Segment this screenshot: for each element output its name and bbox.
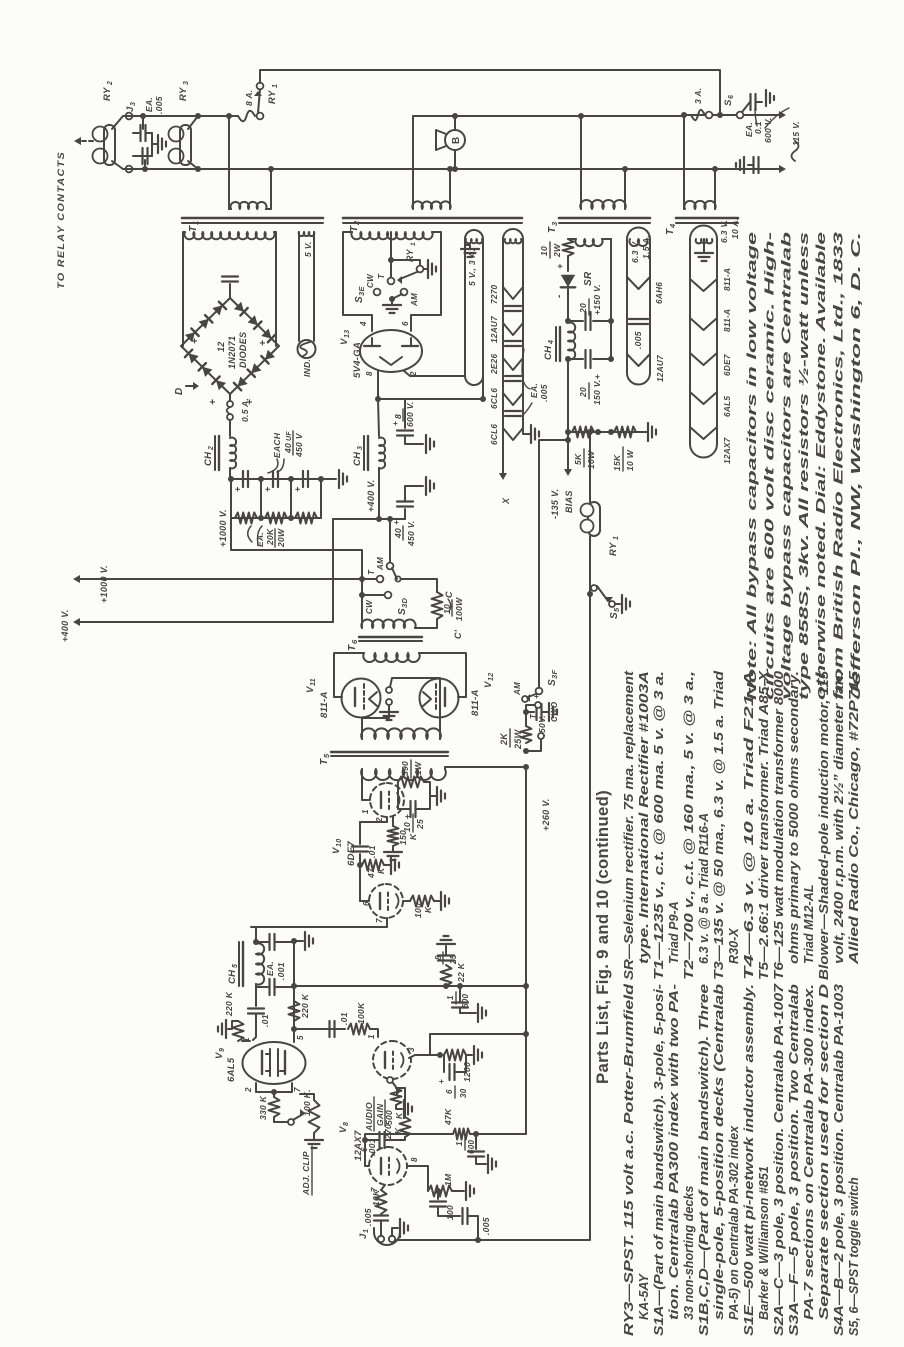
selenium rectifier SR xyxy=(567,256,569,271)
svg-text:811-A: 811-A xyxy=(319,691,330,718)
heaters 6.3V5A xyxy=(503,287,523,299)
svg-text:3: 3 xyxy=(130,102,137,106)
svg-text:3F: 3F xyxy=(550,670,559,679)
ground RY1 contact xyxy=(424,268,427,270)
fuse 3A xyxy=(691,110,705,121)
heater 12AU7 xyxy=(627,354,650,366)
svg-text:20K: 20K xyxy=(265,528,275,546)
svg-text:CH: CH xyxy=(543,345,554,360)
svg-text:+: + xyxy=(555,263,565,269)
svg-text:12AU7: 12AU7 xyxy=(656,355,665,382)
T6 primary winding xyxy=(361,620,415,628)
+1000V wire run xyxy=(231,518,362,579)
svg-text:8: 8 xyxy=(434,955,443,960)
T1 5V winding xyxy=(299,232,315,236)
svg-text:0.1: 0.1 xyxy=(753,121,763,134)
V10 triode A dashed xyxy=(370,783,404,817)
T4 primary xyxy=(684,201,715,209)
wire T6 sec to V11 plate xyxy=(334,653,364,697)
grid stopper 10K xyxy=(376,1190,387,1214)
svg-text:T5—2.66:1 driver transformer: T5—2.66:1 driver transformer. Triad A85-… xyxy=(757,669,771,980)
svg-text:SR—Selenium rectifier. 75: SR—Selenium rectifier. 75 ma. replacemen… xyxy=(622,670,636,980)
wire to S3F contact T xyxy=(526,705,534,726)
svg-text:811-A: 811-A xyxy=(470,689,481,716)
relay contacts RY2 xyxy=(93,149,108,164)
svg-text:2: 2 xyxy=(208,446,215,451)
svg-text:1: 1 xyxy=(363,1229,370,1233)
tube V13 5V4-GA xyxy=(360,330,422,372)
svg-text:40: 40 xyxy=(393,528,403,539)
svg-text:+1000 V.: +1000 V. xyxy=(99,565,109,603)
svg-text:ADJ. CLIP: ADJ. CLIP xyxy=(301,1151,311,1196)
wire +1000 to T6 primary xyxy=(361,579,363,628)
svg-text:.001: .001 xyxy=(367,1138,377,1156)
resistor 270K xyxy=(400,1117,411,1137)
svg-text:S5, 6—SPST toggle switch: S5, 6—SPST toggle switch xyxy=(847,1177,861,1336)
svg-text:1: 1 xyxy=(272,84,279,88)
svg-text:EA.: EA. xyxy=(265,961,275,976)
T5 primary winding xyxy=(361,769,446,780)
svg-text:T: T xyxy=(319,758,330,765)
svg-text:5: 5 xyxy=(322,753,331,758)
svg-text:RY: RY xyxy=(267,89,278,104)
svg-text:S1A—(Part of main bandswitch).: S1A—(Part of main bandswitch). 3-pole, 5… xyxy=(652,984,666,1336)
svg-text:5: 5 xyxy=(232,964,239,968)
svg-text:8: 8 xyxy=(365,371,374,376)
svg-text:Parts List, Fig. 9 and 10 (con: Parts List, Fig. 9 and 10 (continued) xyxy=(594,790,612,1084)
resistor 10ohm 2W xyxy=(563,239,574,256)
T6 secondary winding xyxy=(363,653,419,662)
svg-text:10: 10 xyxy=(539,246,549,256)
wire coil to S5 xyxy=(589,536,591,594)
svg-text:S: S xyxy=(354,296,365,303)
T2 HV secondary xyxy=(351,232,432,239)
svg-text:5 V.: 5 V. xyxy=(303,241,313,257)
svg-text:6DE7: 6DE7 xyxy=(723,354,732,376)
svg-text:5: 5 xyxy=(296,1035,305,1040)
line bypass cap neutral side xyxy=(752,157,754,173)
svg-text:+400 V.: +400 V. xyxy=(366,479,376,512)
clipper output wire to V9 pin 5 xyxy=(293,941,295,1042)
svg-text:2E26: 2E26 xyxy=(490,354,499,375)
svg-text:.005: .005 xyxy=(633,331,643,349)
svg-text:6: 6 xyxy=(445,1089,454,1094)
svg-text:3: 3 xyxy=(183,81,190,85)
svg-text:Separate section used for sect: Separate section used for section D xyxy=(817,984,831,1320)
svg-text:7: 7 xyxy=(375,918,384,923)
S3F switch xyxy=(535,702,541,708)
jack J3 xyxy=(126,113,133,120)
svg-text:AM: AM xyxy=(513,682,522,696)
relay contact RY1 on CT xyxy=(391,260,420,265)
tube V9 6AL5 xyxy=(243,1042,306,1084)
svg-text:CW: CW xyxy=(365,599,374,614)
svg-text:AUDIO: AUDIO xyxy=(364,1102,374,1132)
svg-text:1: 1 xyxy=(367,1034,376,1039)
pilot lamp IND xyxy=(298,340,316,358)
svg-text:T4—6.3 v. @ 10 a. Triad: T4—6.3 v. @ 10 a. Triad F21-A xyxy=(742,671,756,980)
svg-text:+1000 V.: +1000 V. xyxy=(218,509,228,547)
svg-text:V: V xyxy=(339,338,350,345)
svg-text:1: 1 xyxy=(361,809,370,814)
6.3V10A chain rails xyxy=(689,239,691,444)
svg-text:S: S xyxy=(723,99,734,106)
svg-text:RY: RY xyxy=(102,86,113,101)
svg-text:SR: SR xyxy=(583,271,594,286)
svg-text:12AU7: 12AU7 xyxy=(490,316,499,343)
S3F pole wire to bias line xyxy=(539,440,568,688)
svg-text:T: T xyxy=(377,273,386,279)
blower motor B xyxy=(445,130,465,150)
loop to pilot lamp xyxy=(298,232,300,341)
T3 6.3V1.5A winding xyxy=(629,239,647,246)
svg-text:10: 10 xyxy=(442,604,452,614)
capacitor 450V from +260 xyxy=(523,709,529,715)
+400 vertical run xyxy=(333,518,405,520)
resistor 1M with ground xyxy=(428,1186,452,1197)
svg-text:R30-X: R30-X xyxy=(727,927,741,964)
svg-text:3 A.: 3 A. xyxy=(693,88,703,104)
T2 primary winding xyxy=(412,201,450,209)
svg-text:DIODES: DIODES xyxy=(238,332,248,368)
junction T1 primary hot xyxy=(226,113,232,119)
V10-B cathode resistor 100K xyxy=(403,900,410,902)
svg-text:BIAS: BIAS xyxy=(564,490,574,513)
svg-text:5 V., 3 A.: 5 V., 3 A. xyxy=(467,249,477,286)
svg-text:2: 2 xyxy=(107,81,114,86)
svg-text:2W: 2W xyxy=(552,243,562,258)
svg-text:12AX7: 12AX7 xyxy=(723,437,732,464)
svg-text:.005: .005 xyxy=(539,384,549,402)
grid terminals between 811s xyxy=(386,687,392,693)
resistor 1200 network xyxy=(444,1050,466,1061)
choke CH3 xyxy=(363,436,365,470)
chain rails xyxy=(626,239,628,373)
svg-text:6CL6: 6CL6 xyxy=(490,424,499,445)
series filter caps EACH 40uF 450V xyxy=(242,471,244,487)
transformer T2 core xyxy=(343,222,522,224)
svg-text:+150 V.: +150 V. xyxy=(592,284,602,315)
svg-text:AM: AM xyxy=(376,557,385,571)
+260 rung C with 47K xyxy=(453,1129,470,1140)
V8-B plate wire to 47K rung xyxy=(365,1140,369,1166)
svg-text:10 +: 10 + xyxy=(402,814,412,832)
svg-text:6: 6 xyxy=(401,321,410,326)
6.3V5A chain rails xyxy=(502,239,504,452)
wire T6 sec to V12 plate xyxy=(419,653,466,697)
svg-text:T1—1235 v., c.t. @ 600 ma: T1—1235 v., c.t. @ 600 ma. 5 v. @ 3 a. xyxy=(652,671,666,980)
capacitor 8uF 600V xyxy=(404,399,406,428)
svg-text:V: V xyxy=(483,681,494,688)
heaters 6.3V10A xyxy=(690,279,717,291)
svg-text:1W: 1W xyxy=(413,761,423,775)
hot rail middle segment xyxy=(413,115,684,117)
capacitors EA .005 across line xyxy=(133,132,139,134)
svg-text:220 K: 220 K xyxy=(224,991,234,1017)
V12 electrodes xyxy=(444,688,446,706)
resistor C' 10 100W xyxy=(432,592,443,619)
T3 bias winding xyxy=(575,239,602,246)
115V source arrows xyxy=(779,111,786,119)
wire T5 to V10 plate xyxy=(362,769,370,800)
resistor 2K 25W xyxy=(523,748,529,754)
svg-text:otherwise noted. Dial: Eddysto: otherwise noted. Dial: Eddystone. Availa… xyxy=(813,232,828,700)
svg-text:330 K: 330 K xyxy=(258,1095,268,1120)
bridge output capacitor xyxy=(229,284,231,298)
svg-text:3: 3 xyxy=(550,221,559,226)
V10 triode B dashed xyxy=(369,884,403,918)
svg-text:Allied Radio Co., Chicago,: Allied Radio Co., Chicago, #72P715 xyxy=(847,670,861,966)
svg-text:+: + xyxy=(190,338,201,344)
wire to CW contact xyxy=(359,592,365,598)
X arrow xyxy=(502,452,504,476)
svg-text:12AX7: 12AX7 xyxy=(353,1130,364,1161)
svg-text:47: 47 xyxy=(366,867,376,879)
T4 6.3V10A winding + CT ground xyxy=(696,239,713,243)
V11 electrodes xyxy=(354,688,356,706)
svg-text:6AH6: 6AH6 xyxy=(655,282,664,304)
svg-text:EA.: EA. xyxy=(255,532,265,547)
svg-text:0.5 A.: 0.5 A. xyxy=(240,398,250,422)
svg-text:20: 20 xyxy=(578,303,588,314)
svg-text:T: T xyxy=(347,644,358,651)
V13 plates xyxy=(364,345,380,347)
T1 HV secondary winding xyxy=(184,232,274,239)
svg-text:T6—125 watt modulation t: T6—125 watt modulation transformer 8000 xyxy=(772,671,786,980)
svg-text:1: 1 xyxy=(613,536,620,540)
svg-text:AM: AM xyxy=(410,293,419,307)
svg-text:6AL5: 6AL5 xyxy=(226,1057,237,1082)
resistor 5K 10W xyxy=(572,427,594,438)
svg-text:K: K xyxy=(393,1127,403,1134)
wire CH2 to filter bank xyxy=(229,468,231,479)
ground chain xyxy=(523,433,530,435)
svg-text:22 K: 22 K xyxy=(456,962,466,983)
wire to clip pot xyxy=(274,1117,288,1122)
svg-text:CH: CH xyxy=(227,969,238,984)
svg-text:6DE7: 6DE7 xyxy=(346,841,357,866)
V8-B cathode network xyxy=(407,1166,428,1191)
line switch RY1 xyxy=(257,113,264,120)
T3 primary xyxy=(580,200,625,209)
svg-text:12: 12 xyxy=(216,341,226,352)
cap .001 to V8-B plate xyxy=(365,1139,378,1141)
coupling cap .01 xyxy=(359,822,361,844)
resistor 22K + cap 8/25 on rung A xyxy=(443,983,449,989)
svg-text:600: 600 xyxy=(467,1140,476,1154)
svg-text:25W: 25W xyxy=(513,728,523,750)
svg-text:EA.: EA. xyxy=(529,383,539,398)
svg-text:220 K: 220 K xyxy=(300,993,310,1019)
rung C branch cap 1/600 and ground xyxy=(473,1131,479,1137)
svg-text:PA-7 sections on Centralab: PA-7 sections on Centralab PA-300 index. xyxy=(802,984,816,1320)
svg-text:6.3 v. @ 5 a. Triad R116-A: 6.3 v. @ 5 a. Triad R116-A xyxy=(697,813,711,964)
S3D pole wire to C' xyxy=(401,579,437,592)
svg-text:TO RELAY CONTACTS: TO RELAY CONTACTS xyxy=(56,151,67,289)
svg-text:voltage bypass capacitors: voltage bypass capacitors are Centralab xyxy=(779,232,794,700)
transformer T6 core xyxy=(359,640,422,642)
J1 ground xyxy=(392,1228,398,1236)
svg-text:+: + xyxy=(233,486,243,492)
svg-text:PA-5) on Centralab PA-302 inde: PA-5) on Centralab PA-302 index xyxy=(727,1125,741,1320)
svg-text:+: + xyxy=(391,421,400,426)
svg-text:T3—135 v. @ 50 ma., 6.3: T3—135 v. @ 50 ma., 6.3 v. @ 1.5 a. Tria… xyxy=(712,671,726,980)
svg-text:S1E—500 watt pi-network ind: S1E—500 watt pi-network inductor assembl… xyxy=(742,984,756,1336)
V13 filament xyxy=(380,357,402,365)
svg-text:C: C xyxy=(444,591,454,598)
svg-text:1N2071: 1N2071 xyxy=(227,336,237,369)
svg-text:EACH: EACH xyxy=(272,432,282,458)
input coupling .005 xyxy=(380,1222,382,1236)
capacitor 8/30 xyxy=(443,1055,445,1072)
svg-text:.01: .01 xyxy=(367,845,377,858)
center tap xyxy=(390,232,392,260)
svg-text:10 A.: 10 A. xyxy=(730,217,740,239)
rung A branch cap 1/600 with ground xyxy=(457,983,463,989)
svg-text:T2—700 v., c.t. @ 160 ma.: T2—700 v., c.t. @ 160 ma., 5 v. @ 3 a., xyxy=(682,671,696,980)
svg-text:25: 25 xyxy=(449,954,458,965)
wire +1000 to T contact xyxy=(362,578,376,580)
+260 rung B xyxy=(430,1034,526,1055)
control bus to J1 xyxy=(396,594,590,1240)
svg-text:4: 4 xyxy=(548,340,555,345)
-135V arrow xyxy=(567,432,569,469)
diode bridge diamond 12 1N2071 xyxy=(181,298,279,394)
svg-text:6.3 V.: 6.3 V. xyxy=(630,240,640,263)
svg-text:10 W: 10 W xyxy=(625,449,635,471)
svg-text:EA.: EA. xyxy=(144,97,154,112)
+260 rung A xyxy=(294,985,526,987)
tube V12 811-A xyxy=(420,679,459,718)
line bypass cap hot side EA 0.1 600V xyxy=(749,94,751,110)
svg-text:20W: 20W xyxy=(276,528,286,548)
svg-text:RY: RY xyxy=(178,86,189,101)
svg-text:S1B,C,D—(Part of main ba: S1B,C,D—(Part of main bandswitch). Three xyxy=(697,984,711,1336)
choke CH5 xyxy=(238,942,240,986)
svg-text:V: V xyxy=(331,847,342,854)
clipper top cap EA .001 xyxy=(256,941,268,943)
svg-text:C': C' xyxy=(453,629,463,639)
svg-text:.01: .01 xyxy=(339,1012,349,1025)
svg-text:5: 5 xyxy=(612,607,621,612)
S3E pole grounded xyxy=(389,296,395,302)
ground between 811s xyxy=(388,705,390,712)
svg-text:8: 8 xyxy=(343,1122,350,1126)
svg-text:S3A—F—5 pole, 3 position.: S3A—F—5 pole, 3 position. Two Centralab xyxy=(787,984,801,1336)
wire coil to bias bus xyxy=(589,432,591,502)
wire .01 to V9 pin 1 xyxy=(255,987,257,1006)
svg-text:-: - xyxy=(554,294,565,298)
svg-text:S: S xyxy=(547,679,558,686)
T2 5V3A winding xyxy=(466,239,483,243)
svg-text:100: 100 xyxy=(445,1205,455,1220)
svg-text:CH: CH xyxy=(352,451,363,466)
switch S6 xyxy=(737,112,744,119)
choke CH4 xyxy=(555,327,557,361)
relay contacts RY3 xyxy=(169,149,184,164)
clipper node with ground xyxy=(291,938,297,944)
svg-text:B: B xyxy=(451,136,462,144)
hot rail lower segment xyxy=(684,114,783,116)
svg-text:T: T xyxy=(367,569,376,575)
svg-text:T: T xyxy=(188,225,199,232)
svg-text:V: V xyxy=(305,686,316,693)
+1000V arrow xyxy=(77,578,362,580)
svg-text:V: V xyxy=(338,1126,349,1133)
svg-text:+: + xyxy=(258,340,269,346)
svg-text:circuits are 600 volt disc: circuits are 600 volt disc ceramic. High… xyxy=(761,231,776,700)
svg-text:500: 500 xyxy=(384,1110,394,1125)
svg-text:600 V.: 600 V. xyxy=(405,401,415,427)
svg-text:V: V xyxy=(214,1052,225,1059)
svg-text:100W: 100W xyxy=(454,597,464,621)
resistor 390 1W xyxy=(398,777,424,788)
svg-text:K: K xyxy=(394,1112,404,1119)
pin8 output wire xyxy=(377,371,379,399)
switch S5 with ground xyxy=(587,591,593,597)
svg-text:1: 1 xyxy=(191,221,200,225)
svg-text:1: 1 xyxy=(410,242,417,246)
svg-text:T: T xyxy=(665,228,676,235)
resistor 15K 10W xyxy=(614,427,636,438)
svg-text:5V4-GA: 5V4-GA xyxy=(352,342,363,378)
tube V11 811-A xyxy=(342,679,381,718)
dashed arrow to relay contacts xyxy=(78,140,93,142)
svg-text:600: 600 xyxy=(461,994,470,1008)
clipper lower cap EA .001 xyxy=(256,984,268,987)
V9 diode plates xyxy=(261,1051,263,1074)
capacitor .005 to bus xyxy=(461,1208,463,1224)
svg-text:S: S xyxy=(609,612,620,619)
T5 grid winding xyxy=(361,728,441,739)
svg-text:1M: 1M xyxy=(443,1173,453,1186)
svg-text:K: K xyxy=(408,833,418,840)
+400V arrow xyxy=(77,621,333,623)
S3E CW contact xyxy=(374,289,381,296)
svg-text:UF: UF xyxy=(286,431,293,441)
svg-text:6: 6 xyxy=(350,639,359,644)
transformer T4 core xyxy=(676,222,738,224)
S3E AM contact xyxy=(401,289,408,296)
svg-text:volt, 2400 r.p.m. with 2½”: volt, 2400 r.p.m. with 2½” diameter fan. xyxy=(832,671,846,964)
tube V8-B 12AX7 (dashed) xyxy=(369,1147,407,1185)
svg-text:3: 3 xyxy=(407,1047,416,1052)
svg-text:15K: 15K xyxy=(612,454,622,471)
svg-text:IND.: IND. xyxy=(302,359,312,377)
svg-text:X: X xyxy=(501,497,511,505)
svg-text:4: 4 xyxy=(668,223,677,229)
coupling cap .01 into V9 xyxy=(248,1012,264,1014)
svg-text:450 V: 450 V xyxy=(294,432,304,458)
ground filter bank xyxy=(338,470,340,488)
hot AC rail upper xyxy=(123,115,238,117)
svg-text:6: 6 xyxy=(728,95,735,99)
transformer T1 core xyxy=(182,222,323,224)
bias filter cap 20 +150V xyxy=(565,318,571,324)
cap .005 xyxy=(629,323,648,325)
jack J1 xyxy=(374,1232,400,1245)
svg-text:KA-5AY: KA-5AY xyxy=(637,1272,651,1320)
pin2 wire to 5V winding xyxy=(404,371,465,376)
resistor 330K xyxy=(273,1092,275,1097)
svg-text:20: 20 xyxy=(578,387,588,398)
svg-text:811-A: 811-A xyxy=(723,268,732,291)
svg-text:8: 8 xyxy=(393,414,403,419)
svg-text:1.5 A.: 1.5 A. xyxy=(641,235,651,259)
svg-text:11: 11 xyxy=(310,678,317,686)
contact T of S3E xyxy=(388,278,395,285)
svg-text:4: 4 xyxy=(359,321,368,327)
